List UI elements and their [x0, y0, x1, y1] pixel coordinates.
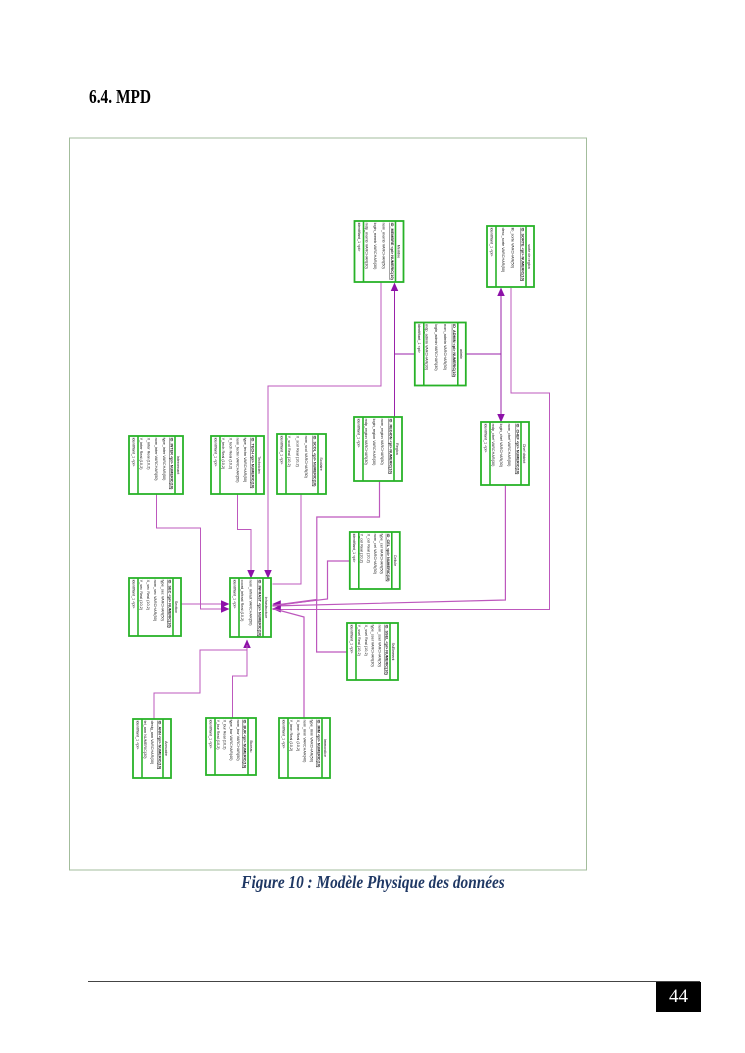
svg-text:nom_inter VARCHAR(50): nom_inter VARCHAR(50)	[154, 438, 158, 482]
svg-text:ID_TECH <pi> NUMERIC(10): ID_TECH <pi> NUMERIC(10)	[250, 438, 254, 489]
arrow into Infrastructure right (mid)	[272, 600, 281, 608]
svg-text:Y_ssel Real (10,2): Y_ssel Real (10,2)	[357, 625, 361, 657]
wire Chef district to Infrastructure right	[273, 485, 506, 606]
wire Bureau to Infrastructure bottom	[233, 645, 248, 718]
heading 6.4. MPD	[89, 86, 170, 109]
svg-text:X_imm Real (10,2): X_imm Real (10,2)	[296, 720, 300, 752]
svg-text:login_memb VARCHAR(30): login_memb VARCHAR(30)	[373, 223, 377, 271]
caption	[0, 872, 745, 893]
svg-text:nom_cel VARCHAR(50): nom_cel VARCHAR(50)	[373, 534, 377, 575]
wire Technicien to Infrastructure top	[238, 494, 252, 576]
table Infrastructure	[230, 578, 271, 637]
svg-text:nom_bur VARCHAR(50): nom_bur VARCHAR(50)	[236, 720, 240, 762]
arrow into Chef district top	[497, 414, 505, 423]
svg-text:desig_ann VARCHAR(30): desig_ann VARCHAR(30)	[150, 721, 154, 765]
svg-text:nom_chef VARCHAR(50): nom_chef VARCHAR(50)	[507, 424, 511, 468]
svg-text:identifiant_1 <pi>: identifiant_1 <pi>	[417, 324, 421, 354]
svg-text:admin: admin	[459, 349, 463, 359]
table admin	[415, 323, 466, 386]
svg-text:identifiant_1 <pi>: identifiant_1 <pi>	[213, 438, 217, 468]
svg-text:type_cel VARCHAR(50): type_cel VARCHAR(50)	[380, 534, 384, 575]
svg-text:type_ssel VARCHAR(30): type_ssel VARCHAR(30)	[371, 625, 375, 668]
svg-text:X_inter Real (10,2): X_inter Real (10,2)	[147, 438, 151, 471]
table Cellule	[350, 532, 400, 589]
svg-text:mdp_region VARCHAR(30): mdp_region VARCHAR(30)	[364, 419, 368, 466]
svg-text:Scolaire: Scolaire	[319, 457, 323, 470]
wire admin to sorte/chef	[466, 353, 501, 355]
svg-text:identifiant_1 <pi>: identifiant_1 <pi>	[483, 424, 487, 454]
wire admin to Region-Membre line	[395, 353, 415, 355]
svg-text:X_ssel Real (10,2): X_ssel Real (10,2)	[364, 625, 368, 657]
svg-text:ID_INTER <pi> NUMERIC(10): ID_INTER <pi> NUMERIC(10)	[169, 438, 173, 490]
wire Region to Membre	[394, 284, 396, 417]
arrow into Infrastructure top (from Technicien)	[247, 570, 255, 579]
svg-text:ID_REGION <pi> NUMERIC(10): ID_REGION <pi> NUMERIC(10)	[388, 419, 392, 475]
arrow into sorte de region bottom	[497, 288, 505, 297]
svg-text:Infrastructure: Infrastructure	[264, 597, 268, 619]
svg-text:ID_SSEL <pi> NUMERIC(10): ID_SSEL <pi> NUMERIC(10)	[384, 625, 388, 676]
arrow into Membre bottom	[391, 283, 399, 292]
svg-text:identifiant_1 <pi>: identifiant_1 <pi>	[131, 580, 135, 610]
table Intervenant	[129, 436, 183, 494]
arrow into Infrastructure left (up)	[221, 600, 230, 608]
svg-text:X_tech Real (10,2): X_tech Real (10,2)	[228, 438, 232, 470]
svg-text:login_region VARCHAR(30): login_region VARCHAR(30)	[372, 419, 376, 467]
svg-text:ID_SORTE <pi> NUMERIC(10): ID_SORTE <pi> NUMERIC(10)	[520, 228, 524, 282]
svg-text:ID_SEC <pi> NUMERIC(10): ID_SEC <pi> NUMERIC(10)	[167, 580, 171, 629]
svg-text:identifiant_1 <pi>: identifiant_1 <pi>	[131, 438, 135, 468]
svg-text:ID_INFRAST <pi> NUMERIC(10): ID_INFRAST <pi> NUMERIC(10)	[257, 580, 261, 637]
table Sorte_de_region	[487, 226, 534, 287]
svg-text:Chef district: Chef district	[522, 444, 526, 463]
wire sorte de region to Infrastructure right	[273, 288, 550, 610]
svg-text:login_chef VARCHAR(30): login_chef VARCHAR(30)	[499, 424, 503, 468]
svg-text:Membre: Membre	[397, 245, 401, 259]
svg-text:ID_IMM <pi> NUMERIC(10): ID_IMM <pi> NUMERIC(10)	[316, 720, 320, 768]
svg-text:nom_scol VARCHAR(50): nom_scol VARCHAR(50)	[304, 436, 308, 479]
wire Immondice to Infrastructure right	[273, 609, 305, 719]
svg-text:mdp_memb VARCHAR(30): mdp_memb VARCHAR(30)	[364, 223, 368, 270]
arrow into Infrastructure left (low)	[221, 605, 230, 613]
table Immondice	[279, 718, 330, 778]
svg-text:identifiant_1 <pi>: identifiant_1 <pi>	[208, 720, 212, 750]
svg-text:X_scol Real (10,2): X_scol Real (10,2)	[295, 436, 299, 468]
svg-text:SsElement: SsElement	[391, 643, 395, 661]
svg-text:nom_imm VARCHAR(40): nom_imm VARCHAR(40)	[303, 720, 307, 763]
svg-text:identifiant_1 <pi>: identifiant_1 <pi>	[281, 720, 285, 750]
svg-text:identifiant_1 <pi>: identifiant_1 <pi>	[352, 534, 356, 564]
svg-text:identifiant_1 <pi>: identifiant_1 <pi>	[489, 228, 493, 258]
wire Intervenant to Infrastructure left	[157, 494, 228, 609]
svg-text:nom_ssel VARCHAR(50): nom_ssel VARCHAR(50)	[378, 625, 382, 668]
table Technicien	[211, 436, 264, 494]
wire Scolaire to Infrastructure right top	[273, 494, 302, 584]
table Region	[354, 417, 402, 481]
svg-text:Annuaire: Annuaire	[164, 741, 168, 756]
svg-text:mdp_chef VARCHAR(30): mdp_chef VARCHAR(30)	[491, 424, 495, 468]
svg-text:ID_ANN <pi> NUMERIC(10): ID_ANN <pi> NUMERIC(10)	[157, 721, 161, 770]
svg-text:Intervenant: Intervenant	[176, 456, 180, 474]
footer rule	[88, 981, 700, 982]
wire Annuaire to Infrastructure bottom	[154, 640, 247, 719]
svg-text:type_bur VARCHAR(40): type_bur VARCHAR(40)	[229, 720, 233, 762]
svg-text:X_bur Real (10,2): X_bur Real (10,2)	[223, 720, 227, 751]
svg-text:Y_sec Real (10,2): Y_sec Real (10,2)	[139, 580, 143, 611]
svg-text:Y_tech Real (10,2): Y_tech Real (10,2)	[221, 438, 225, 470]
svg-text:Region: Region	[395, 443, 399, 455]
table Membre	[355, 221, 404, 282]
table Annuaire	[133, 719, 171, 778]
svg-text:nom_memb VARCHAR(50): nom_memb VARCHAR(50)	[381, 223, 385, 270]
svg-text:nom_region VARCHAR(50): nom_region VARCHAR(50)	[380, 419, 384, 466]
svg-text:nom_techn VARCHAR(50): nom_techn VARCHAR(50)	[236, 438, 240, 484]
svg-text:login_admin VARCHAR(30): login_admin VARCHAR(30)	[434, 324, 438, 371]
svg-text:ID_ADMIN <pi> NUMERIC(10): ID_ADMIN <pi> NUMERIC(10)	[452, 324, 456, 377]
figure frame	[70, 138, 587, 870]
svg-text:Y_inter Real (10,2): Y_inter Real (10,2)	[139, 438, 143, 471]
svg-text:identifiant_1 <pi>: identifiant_1 <pi>	[357, 223, 361, 253]
svg-text:Cellule: Cellule	[393, 555, 397, 566]
svg-text:type_techn VARCHAR(50): type_techn VARCHAR(50)	[243, 438, 247, 483]
svg-text:ID_CHEF <pi> NUMERIC(10): ID_CHEF <pi> NUMERIC(10)	[515, 424, 519, 475]
svg-text:identifiant_1 <pi>: identifiant_1 <pi>	[349, 625, 353, 655]
svg-text:tel_ann NUMERIC(20): tel_ann NUMERIC(20)	[143, 721, 147, 760]
svg-text:coord_infrast Real (10,2): coord_infrast Real (10,2)	[240, 580, 244, 623]
page number box	[656, 982, 701, 1012]
svg-text:Section: Section	[174, 601, 178, 613]
table Chef_district	[481, 422, 529, 485]
svg-text:Immondice: Immondice	[323, 739, 327, 757]
svg-text:identifiant_1 <pi>: identifiant_1 <pi>	[279, 436, 283, 466]
svg-text:Y_imm Real (10,2): Y_imm Real (10,2)	[289, 720, 293, 752]
svg-text:nom_sec VARCHAR(50): nom_sec VARCHAR(50)	[153, 580, 157, 622]
table Scolaire	[277, 434, 326, 494]
svg-text:ID_BUR <pi> NUMERIC(10): ID_BUR <pi> NUMERIC(10)	[242, 720, 246, 769]
table SsElement	[347, 623, 398, 680]
table Bureau	[206, 718, 256, 775]
svg-text:ID_MEMBRE <pi> NUMERIC(10): ID_MEMBRE <pi> NUMERIC(10)	[390, 223, 394, 281]
svg-text:type_sec VARCHAR(50): type_sec VARCHAR(50)	[160, 580, 164, 622]
svg-text:sorte de region: sorte de region	[527, 244, 531, 269]
svg-text:lib_sorte VARCHAR(50): lib_sorte VARCHAR(50)	[511, 228, 515, 269]
arrow into Infrastructure bottom	[243, 640, 251, 649]
arrow into Infrastructure right (low)	[272, 605, 281, 613]
svg-text:Y_bur Real (10,2): Y_bur Real (10,2)	[216, 720, 220, 751]
arrow into Infrastructure top (from Membre)	[264, 570, 272, 579]
svg-text:Technicien: Technicien	[257, 456, 261, 473]
wire Section to Infrastructure left	[181, 603, 227, 605]
svg-text:identifiant_1 <pi>: identifiant_1 <pi>	[232, 580, 236, 610]
wire Cellule to Infrastructure right	[273, 561, 350, 606]
svg-text:ID_SCOL <pi> NUMERIC(10): ID_SCOL <pi> NUMERIC(10)	[312, 436, 316, 488]
table Section	[129, 578, 181, 636]
svg-text:type_inter VARCHAR(50): type_inter VARCHAR(50)	[162, 438, 166, 482]
svg-text:identifiant_1 <pi>: identifiant_1 <pi>	[135, 721, 139, 751]
svg-text:Y_cel Real (10,2): Y_cel Real (10,2)	[360, 534, 364, 564]
svg-text:type_imm VARCHAR(50): type_imm VARCHAR(50)	[310, 720, 314, 763]
wire SsElement to Infrastructure right	[273, 600, 348, 652]
svg-text:X_cel Real (10,2): X_cel Real (10,2)	[366, 534, 370, 564]
svg-text:Bureau: Bureau	[249, 741, 253, 753]
svg-text:Y_scol Real (10,2): Y_scol Real (10,2)	[287, 436, 291, 468]
svg-text:mdp_admin VARCHAR(30): mdp_admin VARCHAR(30)	[425, 324, 429, 371]
svg-text:X_sec Real (10,2): X_sec Real (10,2)	[146, 580, 150, 611]
svg-text:ID_CEL <pi> NUMERIC(10): ID_CEL <pi> NUMERIC(10)	[386, 534, 390, 583]
svg-text:nom_admin VARCHAR(50): nom_admin VARCHAR(50)	[443, 324, 447, 371]
svg-text:nom_infrast VARCHAR(50): nom_infrast VARCHAR(50)	[249, 580, 253, 627]
svg-text:identifiant_1 <pi>: identifiant_1 <pi>	[356, 419, 360, 449]
svg-text:desc_sorte VARCHAR(50): desc_sorte VARCHAR(50)	[501, 228, 505, 273]
wire Membre to Infrastructure	[268, 282, 381, 578]
wire Region bottom to Infrastructure right	[273, 481, 380, 606]
